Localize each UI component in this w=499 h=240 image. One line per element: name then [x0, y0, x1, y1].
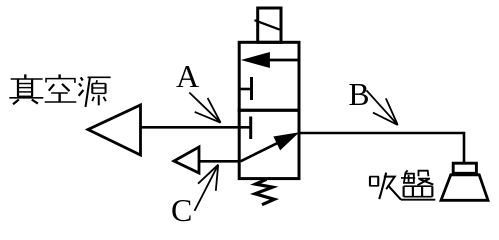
wire B (valve to suction cup) [299, 133, 464, 163]
vacuum source triangle [88, 105, 141, 155]
spring return [255, 179, 274, 204]
node A callout arrow [189, 93, 220, 123]
node C callout arrow [195, 165, 219, 211]
blocked port symbol in bottom position [249, 117, 252, 140]
solenoid actuator Y1 [255, 8, 282, 42]
node B callout arrow [367, 90, 398, 125]
suction cup bell [441, 175, 488, 201]
label 吸盤 (suction cup) : hand-drawn glyphs [369, 173, 401, 200]
exhaust triangle C [174, 147, 199, 173]
svg-text:B: B [349, 77, 370, 112]
flow arrow in top valve position (points left) [243, 53, 301, 68]
suction cup stem [453, 163, 476, 173]
label 真空源 (vacuum source) : hand-drawn glyphs [9, 74, 43, 104]
svg-text:A: A [176, 58, 199, 94]
flow arrow in bottom valve position (diagonal, points up-right) [241, 133, 298, 161]
valve body V1 (two stacked position boxes) [238, 42, 301, 178]
svg-text:C: C [171, 192, 192, 228]
blocked port symbol in top position [239, 77, 252, 100]
wire A (vacuum source to valve port) [141, 126, 251, 129]
wire C (exhaust triangle to valve) [199, 160, 241, 163]
